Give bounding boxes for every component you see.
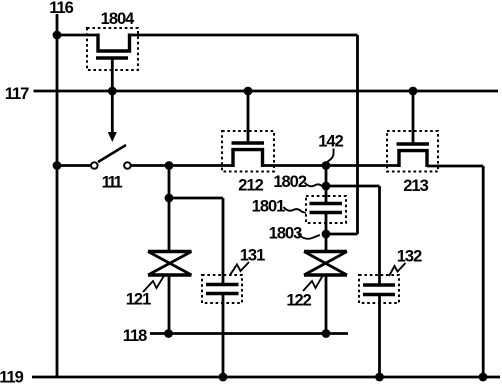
junction gate212/line117 [244, 87, 253, 96]
wire cap 132 bottom lead to line 119 [378, 296, 381, 378]
junction 122/line118 [322, 329, 331, 338]
liquid crystal element 122 [304, 252, 347, 276]
switch 111 right contact [124, 162, 131, 169]
node 1803 junction [322, 230, 331, 239]
svg-text:118: 118 [123, 327, 147, 345]
wire node 1803 down to element 122 [325, 234, 328, 252]
svg-text:116: 116 [49, 0, 73, 17]
leader for label 1802 [305, 183, 323, 187]
wire rail x379 down to capacitor 132 [378, 186, 381, 285]
junction gate213/line117 [409, 87, 418, 96]
switch 111 blade [98, 145, 126, 162]
arrow from line 117 pointing down to switch 111 [108, 92, 117, 142]
svg-text:1801: 1801 [252, 198, 286, 216]
wire line 117 [34, 90, 499, 93]
wire node 142 to transistor 213 source [326, 164, 399, 167]
wire cap 1801 bottom plate down to node 1803 [325, 214, 328, 234]
liquid crystal element 121 [148, 252, 192, 276]
wire 121 bottom lead to line 118 [168, 275, 171, 334]
svg-text:111: 111 [102, 174, 123, 192]
wire cap 131 top lead [222, 198, 225, 284]
svg-text:122: 122 [286, 292, 311, 310]
svg-text:1803: 1803 [269, 225, 303, 243]
wire vertical x357 from top wire down to node 1803 branch [356, 35, 359, 234]
wire transistor 213 drain to right rail [427, 165, 483, 168]
junction 121-lead/131-branch [165, 194, 174, 203]
junction right-rail/line119 [479, 373, 488, 382]
svg-text:131: 131 [240, 247, 265, 265]
svg-text:119: 119 [0, 369, 24, 384]
junction rail116/top-branch [53, 31, 62, 40]
junction rail116/switch line [53, 161, 62, 170]
svg-text:1804: 1804 [101, 10, 136, 28]
wire rail 116 vertical [56, 14, 59, 377]
junction 121/line118 [164, 329, 173, 338]
leader for label 132 [389, 263, 406, 276]
svg-text:121: 121 [126, 291, 151, 309]
wire 121 top lead from switch line [168, 166, 171, 252]
wire transistor 212 drain to node 142 [263, 164, 327, 167]
transistor 212 [222, 91, 274, 172]
node 1802 junction [322, 182, 331, 191]
node 142 junction [322, 161, 331, 170]
capacitor 132 [359, 275, 399, 303]
wire switch to junction of element 121 [131, 164, 169, 167]
capacitor 1801 [306, 196, 346, 223]
transistor 1804 [87, 28, 138, 70]
junction 132/line119 [375, 373, 384, 382]
svg-text:117: 117 [5, 85, 29, 103]
wire node 142 down to node 1802 [325, 166, 328, 187]
svg-text:1802: 1802 [273, 173, 307, 191]
leader for label 122 [303, 276, 323, 291]
leader for label 121 [143, 275, 165, 292]
wire line 119 [32, 376, 500, 379]
junction switch-line/121-branch [165, 161, 174, 170]
wire right rail x484 down to line 119 [482, 166, 485, 377]
junction 131/line119 [219, 373, 228, 382]
junction gate1804/line117 [108, 87, 117, 96]
wire node 1802 down to cap 1801 top plate [325, 186, 328, 202]
svg-text:213: 213 [403, 177, 428, 195]
wire junction to transistor 212 source [169, 164, 233, 167]
wire switch line left segment [57, 164, 91, 167]
leader for label 1803 [298, 234, 320, 239]
wire 122 bottom lead to line 118 [325, 275, 328, 334]
transistor 213 [387, 91, 438, 172]
wire top branch from rail 116 to transistor 1804 [57, 34, 98, 37]
svg-text:142: 142 [318, 133, 343, 151]
leader for label 142 [326, 149, 333, 164]
wire 1804 gate lead down to line 117 [111, 59, 114, 91]
leader for label 1801 [284, 207, 307, 213]
switch 111 left contact [91, 162, 98, 169]
wire node 1802 branch right to x379 rail [326, 185, 380, 188]
wire line 118 [150, 332, 348, 335]
svg-text:212: 212 [238, 177, 263, 195]
wire branch to capacitor 131 [169, 197, 223, 200]
wire 1804 drain to node at x357 [130, 34, 358, 37]
wire node 1803 branch right to x357 rail [326, 233, 358, 236]
leader for label 131 [230, 262, 249, 275]
capacitor 131 [202, 275, 242, 303]
wire cap 131 bottom lead to line 119 [222, 295, 225, 378]
svg-text:132: 132 [397, 248, 422, 266]
